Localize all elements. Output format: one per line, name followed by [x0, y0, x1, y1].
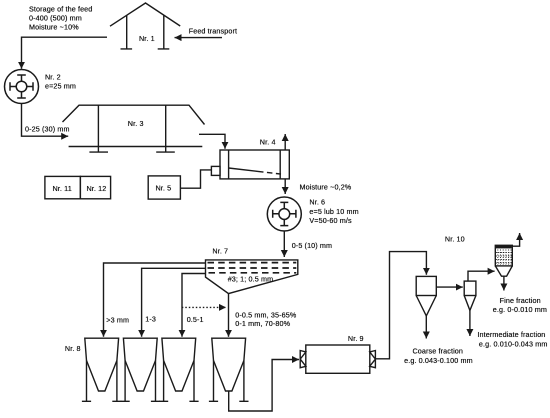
svg-text:Nr. 2: Nr. 2 [45, 73, 61, 82]
svg-text:e=5 lub 10 mm: e=5 lub 10 mm [309, 207, 358, 216]
svg-text:Nr. 10: Nr. 10 [445, 235, 465, 244]
svg-text:e=25 mm: e=25 mm [45, 82, 76, 91]
svg-text:Nr. 7: Nr. 7 [212, 246, 228, 255]
svg-text:Feed transport: Feed transport [189, 27, 237, 36]
svg-text:Moisture ~10%: Moisture ~10% [29, 23, 79, 32]
svg-text:Intermediate fraction: Intermediate fraction [477, 330, 545, 339]
svg-text:0-400 (500) mm: 0-400 (500) mm [29, 14, 82, 23]
svg-text:Nr. 8: Nr. 8 [65, 344, 81, 353]
svg-text:#3; 1; 0.5 mm: #3; 1; 0.5 mm [228, 275, 274, 284]
svg-text:Coarse fraction: Coarse fraction [413, 346, 464, 355]
svg-text:Nr. 5: Nr. 5 [156, 184, 172, 193]
svg-text:Moisture ~0,2%: Moisture ~0,2% [300, 183, 352, 192]
svg-text:e.g. 0.010-0.043 mm: e.g. 0.010-0.043 mm [479, 339, 548, 348]
svg-text:Nr. 4: Nr. 4 [260, 137, 276, 146]
svg-text:Nr. 12: Nr. 12 [87, 184, 107, 193]
svg-text:>3 mm: >3 mm [106, 315, 129, 324]
svg-text:0-1 mm, 70-80%: 0-1 mm, 70-80% [235, 319, 290, 328]
svg-text:e.g. 0.043-0.100 mm: e.g. 0.043-0.100 mm [404, 356, 473, 365]
svg-text:Fine fraction: Fine fraction [500, 296, 541, 305]
svg-text:V=50-60 m/s: V=50-60 m/s [309, 216, 352, 225]
svg-text:0-5 (10) mm: 0-5 (10) mm [292, 241, 332, 250]
svg-text:e.g. 0-0.010 mm: e.g. 0-0.010 mm [493, 305, 547, 314]
svg-text:Storage of the feed: Storage of the feed [29, 5, 92, 14]
svg-text:Nr. 6: Nr. 6 [309, 197, 325, 206]
svg-text:Nr. 9: Nr. 9 [348, 334, 364, 343]
svg-text:0-25 (30) mm: 0-25 (30) mm [25, 125, 70, 134]
svg-text:0.5-1: 0.5-1 [187, 315, 204, 324]
svg-text:Nr. 11: Nr. 11 [53, 184, 72, 193]
svg-text:Nr. 1: Nr. 1 [139, 34, 155, 43]
svg-text:Nr. 3: Nr. 3 [128, 119, 144, 128]
svg-text:1-3: 1-3 [145, 314, 156, 323]
